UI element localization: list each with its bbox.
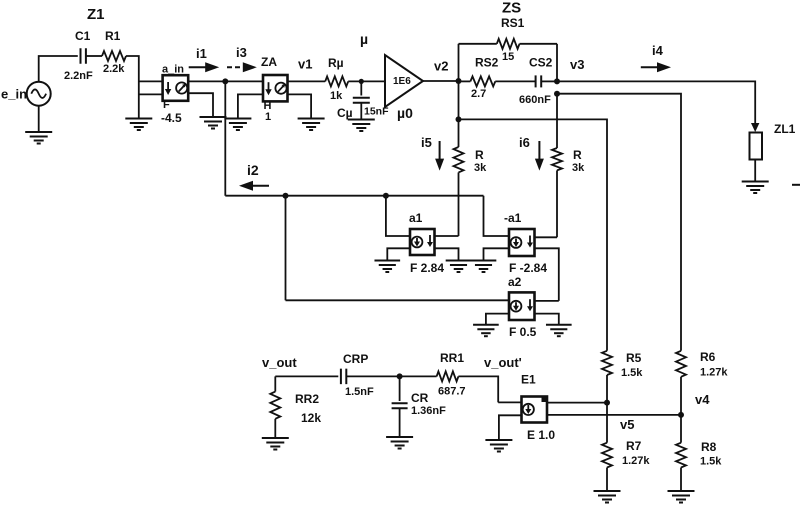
svg-text:1E6: 1E6	[393, 76, 411, 87]
svg-text:CR: CR	[411, 391, 429, 405]
wire 660nF line to R6	[557, 94, 681, 351]
svg-text:15: 15	[502, 51, 514, 63]
svg-text:R7: R7	[626, 439, 642, 453]
wire C1-R1	[86, 55, 102, 57]
wire v3 to ZL1	[557, 81, 755, 123]
wire e_in bottom	[38, 106, 40, 132]
svg-text:Z1: Z1	[87, 6, 105, 23]
svg-text:i3: i3	[236, 45, 247, 60]
arrow i1	[189, 66, 208, 68]
resistor R 3k right	[552, 148, 562, 170]
svg-text:-a1: -a1	[504, 211, 522, 225]
resistor RS1	[497, 39, 520, 49]
wire ZS right vertical	[556, 44, 558, 82]
wire ZA lower-left pin	[238, 94, 263, 118]
svg-text:1.5k: 1.5k	[700, 456, 722, 468]
node v3 junction	[554, 78, 560, 84]
node v2 junction	[456, 78, 462, 84]
wire ZA lower-right pin	[288, 94, 312, 118]
svg-text:RR2: RR2	[295, 392, 319, 406]
svg-text:ZS: ZS	[502, 0, 521, 17]
voltage source e_in	[27, 82, 51, 106]
ground right of ZA	[298, 118, 325, 120]
source ZA (H 1)	[263, 75, 288, 101]
svg-text:3k: 3k	[572, 162, 585, 174]
wire ZS lower line to R5 column	[459, 119, 608, 350]
svg-text:1k: 1k	[330, 90, 343, 102]
resistor RR1	[437, 371, 459, 381]
wire -a1 lower-left pin	[484, 248, 510, 260]
wire E1 lower-left pin	[499, 415, 522, 440]
node v1/Cµ junction	[359, 79, 364, 84]
wire R6 to v4	[680, 377, 682, 415]
wire opamp output v2	[423, 80, 459, 82]
wire RS2 left lead	[459, 80, 471, 82]
arrow i3	[227, 66, 245, 68]
arrow i2	[251, 185, 269, 187]
resistor R6	[676, 351, 686, 377]
wire a_in upper-right pin	[188, 80, 263, 82]
wire E1 lower-right pin (v5 line)	[547, 414, 681, 416]
svg-text:Rµ: Rµ	[328, 56, 344, 70]
ground under ZL1	[742, 181, 769, 183]
svg-text:CS2: CS2	[529, 56, 553, 70]
node CR junction	[397, 373, 403, 379]
wire RR1 to E1	[458, 376, 498, 402]
svg-text:F: F	[163, 99, 170, 111]
svg-text:1.27k: 1.27k	[700, 367, 728, 379]
resistor R8	[676, 443, 686, 468]
svg-text:C1: C1	[75, 29, 91, 43]
wire a_in junction down	[224, 81, 226, 195]
svg-text:F -2.84: F -2.84	[509, 261, 547, 275]
wire junction to R left	[458, 119, 460, 147]
wire CRP to CR node	[346, 375, 399, 377]
source a_in (F -4.5)	[163, 75, 189, 101]
ground left of a_in	[125, 118, 152, 120]
wire a1 lower-right pin	[435, 248, 459, 260]
source E1 (E 1.0)	[522, 397, 548, 423]
wire a_in upper-left pin	[139, 80, 163, 82]
svg-text:12k: 12k	[301, 411, 321, 425]
resistor R7	[602, 443, 612, 468]
svg-text:i1: i1	[196, 46, 207, 61]
wire a_in lower-left pin	[139, 93, 163, 95]
wire i2 line	[225, 195, 483, 197]
wire v_out to RR2	[274, 376, 276, 391]
wire v4 to R8	[680, 415, 682, 443]
ground a1 left	[374, 260, 400, 262]
svg-text:1: 1	[265, 111, 271, 123]
svg-text:RR1: RR1	[440, 351, 464, 365]
node junction ZS lower-left	[456, 116, 462, 122]
svg-text:i6: i6	[519, 135, 530, 150]
source a1 (F 2.84)	[410, 229, 435, 255]
svg-text:1.5nF: 1.5nF	[345, 386, 374, 398]
svg-text:v2: v2	[434, 59, 448, 74]
wire node to RR1	[400, 375, 437, 377]
node junction i2/a1	[383, 193, 389, 199]
wire -a1 upper-left pin	[484, 196, 510, 236]
svg-text:i2: i2	[247, 162, 259, 178]
svg-text:R1: R1	[105, 29, 121, 43]
svg-text:a2: a2	[508, 275, 522, 289]
arrowhead into ZL1	[751, 123, 759, 132]
svg-text:660nF: 660nF	[519, 94, 551, 106]
svg-text:a1: a1	[409, 211, 423, 225]
svg-text:µ0: µ0	[397, 105, 413, 121]
wire Rµ to opamp	[348, 80, 385, 82]
ground a2 left	[473, 324, 499, 326]
ground under CR	[386, 436, 413, 438]
svg-text:2.2k: 2.2k	[103, 63, 125, 75]
wire a2 lower-right pin	[535, 314, 559, 325]
wire CS2 right lead	[541, 80, 557, 82]
svg-text:R5: R5	[626, 351, 642, 365]
node junction at a_in output	[222, 78, 228, 84]
svg-text:-4.5: -4.5	[161, 111, 182, 125]
wire R1 to a_in	[126, 56, 139, 119]
svg-text:1.36nF: 1.36nF	[411, 405, 446, 417]
svg-text:v3: v3	[570, 57, 584, 72]
resistor R 3k left	[454, 147, 464, 172]
wire R5 to E1 junction	[606, 375, 608, 403]
arrow i6	[538, 141, 540, 161]
svg-text:i5: i5	[421, 135, 432, 150]
node junction i2/a2	[283, 193, 289, 199]
wire ZA output v1	[288, 80, 326, 82]
source -a1 (F -2.84)	[509, 229, 535, 256]
svg-text:1.5k: 1.5k	[621, 367, 643, 379]
wire a2 upper-right pin	[535, 300, 559, 302]
capacitor CRP	[340, 369, 342, 385]
ground under Cµ	[348, 119, 375, 121]
svg-text:a_in: a_in	[162, 64, 184, 76]
arrow i5	[439, 141, 441, 161]
capacitor CS2	[535, 75, 537, 87]
svg-text:v_out': v_out'	[484, 355, 522, 370]
wire R8 bottom	[680, 468, 682, 492]
resistor Rµ	[325, 76, 348, 86]
svg-text:E 1.0: E 1.0	[527, 428, 555, 442]
wire -a1 lower-right pin	[535, 248, 559, 301]
ground a2 right	[546, 324, 572, 326]
resistor RR2	[270, 392, 280, 419]
wire E1 upper-right pin	[547, 402, 607, 404]
svg-text:ZL1: ZL1	[774, 122, 796, 136]
svg-text:RS1: RS1	[501, 16, 525, 30]
svg-text:2.7: 2.7	[471, 88, 486, 100]
svg-text:R: R	[475, 148, 484, 162]
ground under RR2	[262, 437, 289, 439]
capacitor Cµ	[353, 97, 370, 99]
node E1 output junction	[604, 400, 610, 406]
svg-text:2.2nF: 2.2nF	[64, 70, 93, 82]
svg-text:1.27k: 1.27k	[622, 455, 650, 467]
svg-text:R6: R6	[700, 350, 716, 364]
svg-text:R: R	[573, 148, 582, 162]
wire a1 upper-right pin	[435, 235, 459, 237]
wire RR2 bottom	[274, 419, 276, 438]
ground E1 left	[485, 439, 512, 441]
wire R left to a1	[458, 172, 460, 236]
svg-text:v1: v1	[298, 57, 312, 72]
resistor R1	[102, 51, 126, 61]
ground a1 right	[446, 260, 472, 262]
wire CR bottom	[399, 408, 401, 437]
wire ZL1 bottom	[754, 160, 756, 182]
ground under R8	[668, 490, 695, 492]
wire e_in top	[39, 56, 78, 82]
resistor R5	[602, 351, 612, 375]
wire a2 lower-left pin	[486, 314, 509, 325]
svg-text:E1: E1	[521, 373, 536, 387]
arrow i4	[641, 66, 659, 68]
edge mark right	[792, 184, 800, 186]
wire RS1 left lead	[459, 43, 497, 45]
wire R right to -a1	[556, 170, 558, 237]
svg-text:ZA: ZA	[261, 55, 277, 69]
svg-text:R8: R8	[701, 440, 717, 454]
wire v_out node	[275, 375, 338, 377]
capacitor C1	[80, 48, 82, 64]
wire junction to R7	[606, 403, 608, 443]
wire Cµ top	[360, 81, 362, 95]
ground under e_in	[25, 131, 52, 133]
ground under R7	[594, 490, 621, 492]
wire Cµ bottom	[360, 103, 362, 120]
capacitor CR	[392, 402, 408, 404]
wire ZS left vertical	[458, 44, 460, 120]
wire a1 upper-left pin	[386, 196, 410, 236]
svg-text:CRP: CRP	[343, 352, 368, 366]
svg-text:v5: v5	[620, 417, 634, 432]
svg-text:µ: µ	[360, 31, 368, 47]
svg-text:i4: i4	[652, 43, 664, 58]
node junction below v3	[554, 91, 560, 97]
svg-text:v4: v4	[695, 392, 710, 407]
ground -a1 left	[471, 260, 497, 262]
op-amp µ (gain 1E6)	[385, 55, 423, 107]
source a2 (F 0.5)	[509, 292, 535, 320]
svg-text:RS2: RS2	[475, 56, 499, 70]
wire down to a2 line	[285, 196, 287, 301]
wire RS2-CS2	[495, 80, 535, 82]
svg-text:3k: 3k	[474, 162, 487, 174]
wire -a1 upper-right pin	[535, 236, 558, 238]
ground left of ZA	[224, 118, 251, 120]
node v4 junction	[678, 412, 684, 418]
load ZL1	[750, 133, 763, 160]
resistor RS2	[470, 76, 495, 86]
svg-text:687.7: 687.7	[438, 386, 466, 398]
ground right of a_in	[200, 116, 227, 118]
wire a1 lower-left pin	[387, 248, 410, 260]
wire a_in lower-right pin	[188, 93, 213, 117]
wire RS1 right lead	[520, 43, 558, 45]
svg-text:e_in: e_in	[1, 87, 27, 102]
wire v3 column to R right	[556, 94, 558, 148]
svg-text:F 0.5: F 0.5	[509, 325, 537, 339]
wire a2 input line	[286, 299, 510, 301]
svg-text:v_out: v_out	[262, 355, 297, 370]
wire CR top	[399, 376, 401, 401]
wire E1 upper-left pin	[498, 401, 521, 403]
wire R7 bottom	[606, 468, 608, 492]
svg-text:F 2.84: F 2.84	[410, 261, 444, 275]
svg-text:Cµ: Cµ	[337, 106, 353, 120]
